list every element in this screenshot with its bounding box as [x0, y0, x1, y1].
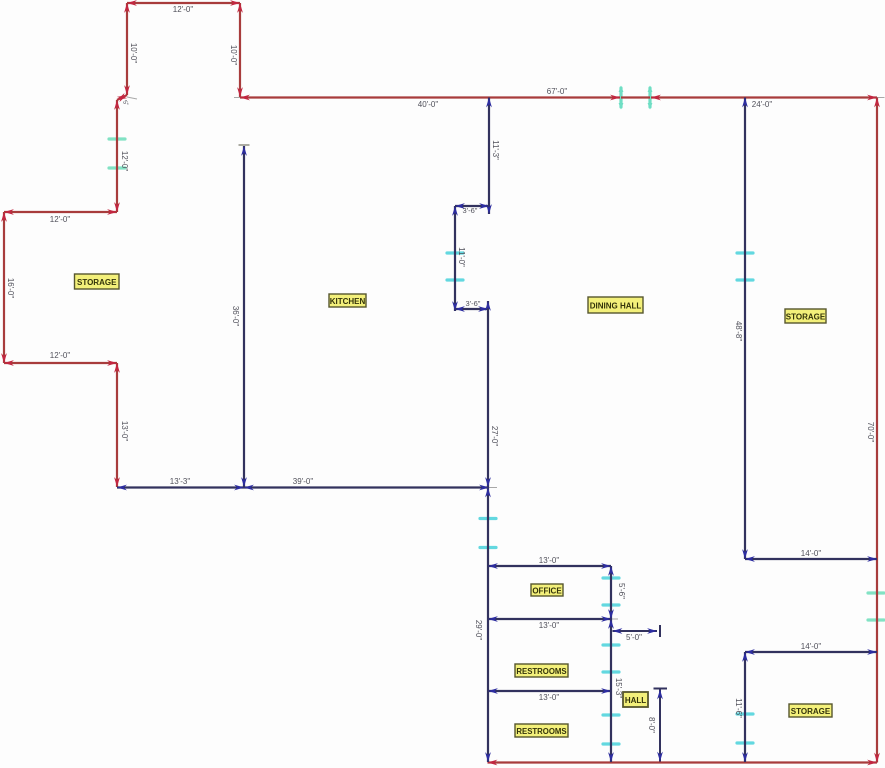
svg-text:14'-0": 14'-0": [801, 549, 822, 558]
svg-text:40'-0": 40'-0": [418, 100, 439, 109]
svg-text:8'-0": 8'-0": [647, 717, 656, 733]
svg-text:OFFICE: OFFICE: [532, 587, 562, 596]
svg-text:27'-0": 27'-0": [490, 426, 499, 447]
svg-text:10'-0": 10'-0": [229, 45, 238, 66]
svg-text:STORAGE: STORAGE: [77, 278, 117, 287]
svg-text:13'-0": 13'-0": [120, 421, 129, 442]
svg-text:67'-0": 67'-0": [547, 87, 568, 96]
svg-text:13'-0": 13'-0": [539, 556, 560, 565]
svg-text:13'-3": 13'-3": [170, 477, 191, 486]
svg-text:5'-0": 5'-0": [626, 633, 642, 642]
svg-text:3'-6": 3'-6": [463, 206, 478, 215]
svg-text:KITCHEN: KITCHEN: [330, 297, 366, 306]
svg-text:70'-0": 70'-0": [866, 422, 875, 443]
svg-text:11'-0": 11'-0": [457, 247, 466, 267]
svg-text:STORAGE: STORAGE: [791, 707, 831, 716]
svg-text:RESTROOMS: RESTROOMS: [516, 727, 566, 736]
svg-text:24'-0": 24'-0": [752, 100, 773, 109]
svg-text:12'-0": 12'-0": [173, 5, 194, 14]
svg-text:48'-8": 48'-8": [734, 321, 743, 342]
svg-text:36'-0": 36'-0": [231, 306, 240, 327]
svg-text:39'-0": 39'-0": [293, 477, 314, 486]
svg-text:13'-0": 13'-0": [539, 693, 560, 702]
svg-text:5'-6": 5'-6": [617, 583, 626, 599]
svg-text:HALL: HALL: [625, 696, 646, 705]
svg-text:RESTROOMS: RESTROOMS: [516, 667, 566, 676]
svg-text:12'-0": 12'-0": [120, 151, 129, 172]
svg-text:14'-0": 14'-0": [801, 642, 822, 651]
svg-text:29'-0": 29'-0": [474, 620, 483, 641]
svg-text:3'-6": 3'-6": [466, 299, 481, 308]
svg-text:16'-0": 16'-0": [6, 278, 15, 299]
svg-text:10'-0": 10'-0": [129, 43, 138, 64]
svg-text:11'-3": 11'-3": [491, 140, 500, 160]
svg-text:11'-6": 11'-6": [734, 698, 743, 718]
svg-text:STORAGE: STORAGE: [786, 313, 826, 322]
svg-text:12'-0": 12'-0": [50, 215, 71, 224]
svg-text:12'-0": 12'-0": [50, 351, 71, 360]
svg-text:DINING HALL: DINING HALL: [590, 302, 642, 311]
svg-text:15'-3": 15'-3": [614, 678, 623, 699]
svg-text:13'-0": 13'-0": [539, 621, 560, 630]
